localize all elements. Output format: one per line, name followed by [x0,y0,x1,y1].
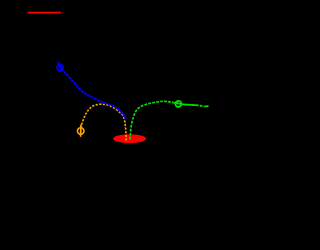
orange dotted looping track [81,104,127,140]
green track end dash [206,105,209,107]
orange track segment through marker [80,125,82,137]
red line segment (top left) [28,12,61,14]
green track segment after marker [182,104,198,105]
green dashed track [130,101,208,139]
green track segment through marker [173,102,185,104]
blue ring marker [57,65,63,71]
green ring marker [175,101,181,107]
blue track [58,62,125,121]
blue track segment through marker [58,62,63,71]
beam spot ellipse (vertex) [113,134,146,143]
orange ring marker [77,128,84,135]
